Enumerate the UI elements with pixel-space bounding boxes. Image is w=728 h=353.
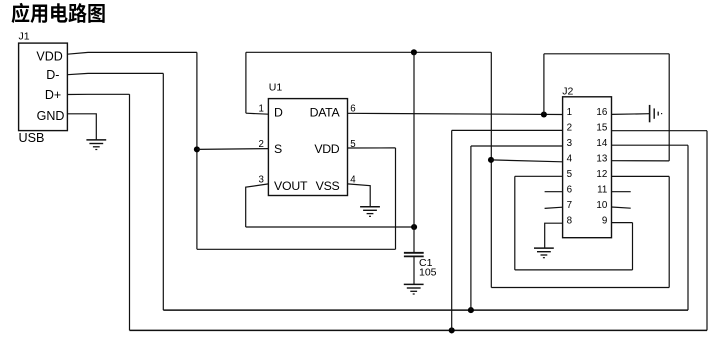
svg-text:14: 14	[596, 138, 607, 149]
wire GND: J1.GND to ground	[67, 114, 96, 140]
svg-text:USB: USB	[19, 131, 45, 145]
ground GND5 (J2 pin16, horizontal)	[649, 105, 651, 122]
svg-text:J1: J1	[19, 31, 30, 43]
title 应用电路图	[12, 3, 105, 23]
capacitor C1 lead top	[413, 52, 415, 252]
wire J2 pin11 stub	[612, 191, 631, 193]
svg-text:S: S	[274, 142, 282, 156]
ground GND3 (C1)	[404, 283, 424, 285]
chip U1 body	[268, 99, 347, 196]
svg-text:VDD: VDD	[314, 142, 339, 156]
svg-text:2: 2	[567, 123, 572, 134]
wire pin5-pin9 loop horizontal	[515, 269, 633, 271]
wire J2 pin12 horizontal	[612, 175, 670, 177]
svg-text:VDD: VDD	[36, 49, 62, 63]
ground GND2 (U1 VSS)	[360, 206, 380, 208]
wire D net bottom loop horizontal	[491, 287, 669, 289]
wire D net riser	[245, 52, 247, 113]
connector J2 body	[563, 97, 612, 238]
wire J2 pin14 riser	[687, 145, 689, 310]
wire J2 pin13 riser	[668, 54, 670, 161]
wire J2 pin15 horizontal	[612, 130, 708, 132]
wire VDD riser to U1 pin5	[395, 148, 397, 249]
svg-text:7: 7	[567, 200, 572, 211]
wire J2 pin5 stub	[515, 175, 563, 177]
node DATA/J2.1 junction	[541, 111, 547, 117]
wire J2 pin6 stub	[545, 191, 563, 193]
wire D+ bottom horizontal to J2.15	[130, 329, 708, 331]
wire DATA top-right horizontal	[544, 53, 669, 55]
svg-text:10: 10	[596, 200, 607, 211]
wire VDD bottom horizontal	[197, 248, 396, 250]
node VDD/S junction	[194, 146, 200, 152]
capacitor C1 plates	[404, 252, 424, 254]
wire D- vertical	[162, 73, 164, 310]
wire VOUT: U1 pin3 down-left	[246, 184, 269, 227]
wire VSS: U1 pin4 to ground	[348, 184, 371, 206]
svg-text:3: 3	[259, 174, 264, 185]
wire J2 pin8 to ground	[545, 223, 563, 248]
wire J2 pin9 stub	[612, 222, 633, 224]
wire J2 pin10 stub	[612, 207, 631, 208]
wire D net right riser (to loop)	[490, 52, 492, 287]
wire D- bottom horizontal to J2.14	[163, 309, 688, 311]
wire DATA: U1 pin6 to J2 pin1	[348, 113, 563, 114]
svg-text:13: 13	[596, 154, 607, 165]
wire J2 pin16 to chassis ground	[612, 113, 650, 116]
svg-text:D+: D+	[45, 88, 61, 102]
node D+/J2.2 junction	[449, 327, 455, 333]
svg-text:2: 2	[259, 139, 264, 150]
node C1/VDD junction	[411, 224, 417, 230]
svg-text:3: 3	[567, 138, 573, 149]
svg-text:12: 12	[596, 169, 607, 180]
wire J2 pin9 riser	[632, 223, 634, 270]
wire J2 pin2 riser	[451, 130, 453, 330]
wire J2 pin7 stub	[545, 207, 563, 208]
svg-text:5: 5	[350, 139, 355, 150]
svg-text:D: D	[274, 106, 283, 120]
wire J2 pin15 riser	[706, 131, 708, 331]
svg-text:D-: D-	[46, 68, 59, 82]
wire J2 pin2 horizontal	[452, 129, 563, 131]
wire VDD: J1.VDD to vertical	[67, 52, 197, 54]
wire J2 pin13 horizontal	[612, 160, 670, 162]
svg-text:1: 1	[259, 104, 264, 115]
wire D+ vertical	[129, 94, 131, 330]
svg-text:U1: U1	[269, 81, 283, 93]
svg-text:8: 8	[567, 216, 573, 227]
wire J2 pin14 horizontal	[612, 144, 689, 146]
wire J2 pin3 riser	[470, 146, 472, 310]
svg-text:VOUT: VOUT	[274, 179, 308, 193]
ground GND1 (J1)	[86, 139, 106, 141]
node D-/J2.3 junction	[468, 307, 474, 313]
wire VOUT bottom horizontal	[246, 226, 414, 228]
connector J1 body	[19, 43, 68, 131]
svg-text:DATA: DATA	[310, 106, 341, 120]
svg-text:1: 1	[567, 107, 572, 118]
svg-text:J2: J2	[562, 86, 573, 98]
wire J2 pin12 riser	[668, 176, 670, 287]
wire U1 pin5 stub	[348, 147, 396, 149]
svg-text:9: 9	[602, 216, 607, 227]
node C1 top tap	[411, 49, 417, 55]
wire S: junction to U1 pin2	[197, 148, 269, 151]
wire D-: J1.D- to vertical	[67, 73, 163, 74]
ground GND4 (J2 pin8)	[534, 247, 554, 249]
svg-text:15: 15	[596, 123, 607, 134]
wire DATA riser	[543, 54, 545, 115]
svg-text:VSS: VSS	[316, 179, 340, 193]
svg-text:6: 6	[567, 185, 573, 196]
wire D net top horizontal	[246, 51, 491, 53]
svg-text:11: 11	[597, 185, 607, 196]
wire J2 pin5 riser	[514, 176, 516, 270]
capacitor C1 lead bottom	[413, 256, 415, 284]
wire J2 pin4 horizontal	[491, 160, 562, 162]
wire J2 pin3 horizontal	[471, 145, 563, 147]
svg-text:GND: GND	[37, 109, 65, 123]
wire U1 pin1 stub	[246, 113, 269, 114]
node J2 pin4 tap	[488, 157, 494, 163]
svg-text:5: 5	[567, 169, 573, 180]
wire VDD vertical	[196, 52, 198, 249]
wire D+: J1.D+ to vertical	[67, 93, 129, 95]
svg-text:105: 105	[419, 267, 437, 279]
svg-text:4: 4	[567, 154, 573, 165]
svg-text:16: 16	[596, 107, 607, 118]
